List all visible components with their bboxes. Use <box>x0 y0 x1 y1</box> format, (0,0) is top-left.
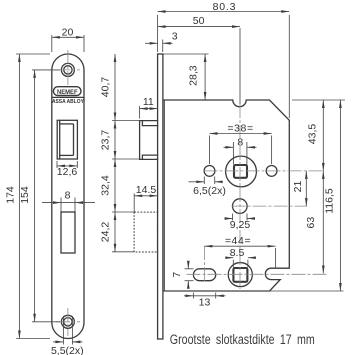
deadbolt cutout <box>61 212 75 253</box>
NEMEF logo oval <box>53 87 81 96</box>
svg-text:=38=: =38= <box>227 123 253 135</box>
svg-text:174: 174 <box>4 186 16 204</box>
dim 6,5(2x) <box>189 177 221 185</box>
centerline bottom follower horizontal <box>187 273 327 275</box>
svg-text:7: 7 <box>171 272 183 278</box>
dim 14,5 <box>134 194 157 213</box>
bottom follower square <box>233 268 247 282</box>
latch bolt side <box>140 121 159 160</box>
dim 11 <box>140 106 158 119</box>
screw hole top <box>61 63 74 76</box>
dim 28,3 <box>163 54 209 100</box>
latch cutout <box>57 120 77 159</box>
dim 63 <box>322 171 324 274</box>
dim 12,6 <box>57 161 77 168</box>
dim 7 <box>185 262 194 288</box>
centerline bottom screw horizontal <box>56 321 80 323</box>
dim 43,5 <box>322 100 324 171</box>
dim 116,5 <box>163 100 345 291</box>
faceplate strip side <box>158 54 163 339</box>
deadbolt hidden dashed <box>134 212 157 252</box>
side view <box>134 54 289 339</box>
svg-text:8.5: 8.5 <box>230 247 245 259</box>
dim =38= <box>210 134 272 165</box>
svg-text:116,5: 116,5 <box>324 188 336 214</box>
svg-text:ASSA ABLOY: ASSA ABLOY <box>52 99 84 105</box>
svg-text:28,3: 28,3 <box>188 65 200 86</box>
dim =44= <box>204 246 275 268</box>
svg-text:40,7: 40,7 <box>100 77 112 98</box>
svg-text:3: 3 <box>172 31 178 43</box>
bottom follower circle <box>228 263 252 287</box>
dim 9,25 <box>225 214 256 221</box>
centerline top screw horizontal <box>56 69 80 71</box>
dim 174 <box>16 54 50 339</box>
svg-text:20: 20 <box>62 27 74 39</box>
dim 13 <box>184 293 226 299</box>
centerline middle hole horizontal <box>232 205 308 207</box>
svg-text:50: 50 <box>193 15 205 27</box>
dim 20 <box>52 35 84 52</box>
follower circle <box>226 156 257 187</box>
svg-text:9,25: 9,25 <box>230 219 251 231</box>
oval slot <box>193 269 215 281</box>
svg-text:11: 11 <box>143 96 154 108</box>
svg-text:154: 154 <box>19 186 31 204</box>
cylinder screw hole left 6.5 <box>204 166 215 177</box>
chain dims 40,7 23,7 32,4 24,2 <box>112 54 140 252</box>
dim 8 cutout <box>42 198 95 212</box>
cylinder screw hole right 6.5 <box>266 166 277 177</box>
svg-text:43,5: 43,5 <box>307 124 319 145</box>
case front wall <box>163 100 165 291</box>
svg-text:12,6: 12,6 <box>57 166 78 178</box>
svg-text:23,7: 23,7 <box>100 130 112 151</box>
svg-text:Grootste slotkastdikte 17 mm: Grootste slotkastdikte 17 mm <box>170 332 315 348</box>
dim 50 <box>158 27 240 104</box>
svg-text:8: 8 <box>65 189 71 201</box>
dim 8.5 <box>226 258 255 268</box>
svg-text:80.3: 80.3 <box>213 1 237 13</box>
dim 3 <box>145 40 173 53</box>
dim 8 follower <box>224 142 257 165</box>
svg-text:NEMEF: NEMEF <box>57 89 78 96</box>
centerline oval slot vertical <box>203 246 205 282</box>
svg-text:13: 13 <box>199 297 211 309</box>
centerline top screw vertical <box>67 50 69 85</box>
centerline follower horizontal <box>204 170 325 172</box>
centerlines <box>56 50 327 336</box>
svg-text:32,4: 32,4 <box>100 175 112 196</box>
svg-text:24,2: 24,2 <box>100 222 112 243</box>
svg-text:21: 21 <box>292 181 304 193</box>
follower square <box>234 165 247 178</box>
dim 5,5(2x) <box>53 316 83 345</box>
dim 154 <box>32 70 60 322</box>
svg-text:5,5(2x): 5,5(2x) <box>51 345 84 355</box>
faceplate outline <box>52 54 84 338</box>
svg-text:14.5: 14.5 <box>136 184 157 196</box>
dim 21 <box>305 171 307 206</box>
svg-text:=44=: =44= <box>225 235 251 247</box>
lock case outline <box>163 100 289 291</box>
svg-text:6,5(2x): 6,5(2x) <box>193 185 226 197</box>
centerline bottom screw vertical <box>67 308 69 336</box>
svg-text:63: 63 <box>305 217 317 229</box>
separator line under logo <box>52 96 84 98</box>
middle hole 9.25 <box>233 199 248 214</box>
svg-text:8: 8 <box>237 136 243 148</box>
centerline follower vertical <box>239 104 241 289</box>
dim 80.3 <box>158 12 290 119</box>
screw hole bottom <box>61 315 74 328</box>
